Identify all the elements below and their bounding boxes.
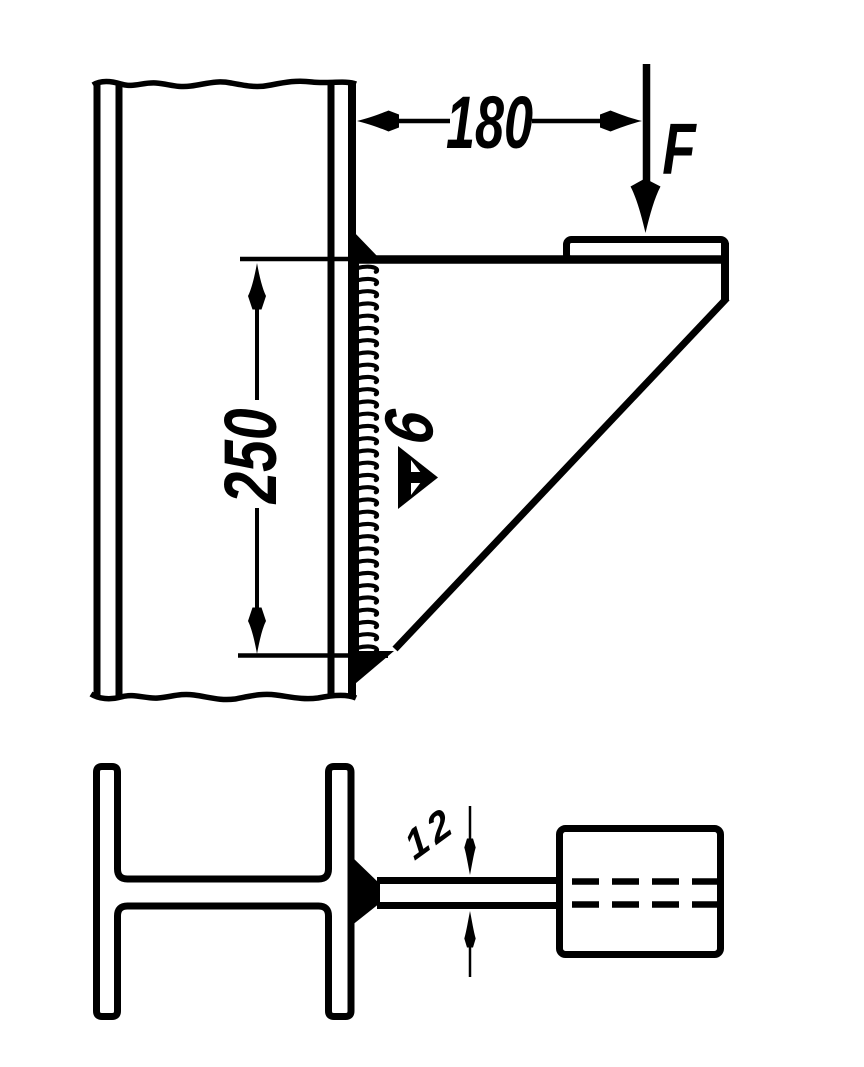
fillet weld triangle top	[352, 230, 379, 258]
column right flange outer edge	[348, 82, 356, 696]
column top break line	[93, 81, 356, 86]
dimension 250 arrowhead bottom	[248, 608, 266, 655]
dimension 180 line left segment	[399, 119, 450, 124]
section weld between flange and plate	[351, 856, 380, 926]
dimension 12 arrowhead upper	[464, 839, 475, 876]
force F arrowhead	[631, 179, 661, 234]
weld seam scallops	[358, 267, 378, 652]
svg-text:F: F	[662, 108, 697, 189]
dimension 250 extension line bottom	[238, 653, 356, 658]
weld seam root line	[356, 262, 359, 651]
section plate bottom edge	[377, 902, 559, 909]
bracket chamfer diagonal edge	[395, 298, 727, 649]
dimension 250 arrowhead top	[248, 263, 266, 310]
dimension 12 arrowhead lower	[464, 911, 475, 948]
dimension 250 extension line top	[240, 257, 356, 262]
dimension 250 line upper segment	[255, 305, 259, 400]
bracket bottom foot edge	[352, 651, 388, 658]
dimension 12 lower line	[469, 946, 472, 977]
column bottom break line	[91, 694, 356, 700]
section load block	[560, 829, 721, 955]
section hidden plate edge bottom (dashed)	[572, 901, 731, 908]
dimension 180 line right segment	[532, 119, 600, 124]
column left flange outer edge	[94, 82, 101, 696]
fillet weld triangle bottom	[349, 651, 394, 689]
svg-text:180: 180	[446, 81, 533, 164]
dimension 12 upper line	[469, 806, 472, 840]
section hidden plate edge top (dashed)	[572, 878, 731, 885]
bracket top edge	[356, 255, 729, 264]
bracket right edge	[721, 243, 729, 301]
section plate top edge	[377, 877, 559, 884]
force F line	[643, 64, 651, 185]
weld symbol fillet triangle	[398, 446, 438, 509]
dimension 180 arrowhead left	[357, 111, 399, 132]
column right flange inner edge	[328, 82, 335, 696]
svg-text:250: 250	[209, 408, 292, 505]
section I-beam outline	[97, 767, 352, 1017]
column left flange inner edge	[116, 82, 123, 696]
dimension 250 line lower segment	[255, 508, 259, 611]
dimension 180 arrowhead right	[600, 111, 642, 132]
load plate on bracket	[567, 240, 726, 260]
